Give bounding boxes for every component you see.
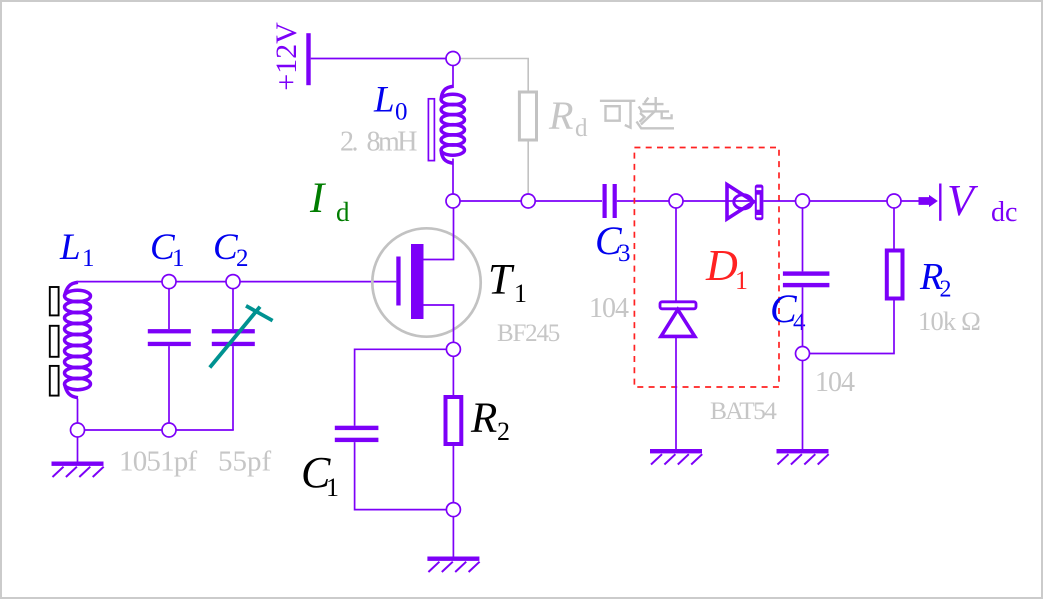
capacitor C4: [783, 271, 830, 275]
inductor L1 core bars: [50, 287, 59, 396]
resistor R2 (source): [446, 397, 462, 444]
svg-text:1: 1: [172, 245, 185, 272]
wire J13 to ground: [452, 517, 454, 557]
ground source: [427, 557, 479, 573]
wire C4 to node J7: [802, 287, 804, 346]
wire J4 to diode D1a: [683, 200, 756, 202]
svg-text:d: d: [336, 197, 350, 227]
dashed box around D1: [634, 148, 779, 388]
transistor T1 gate bar: [396, 257, 400, 306]
wire drain: [424, 208, 454, 260]
node J1: [446, 52, 460, 66]
svg-text:1: 1: [514, 279, 527, 308]
wire J5 to J6: [810, 200, 888, 202]
node J7: [796, 347, 810, 361]
power supply +12V bar: [306, 33, 310, 85]
svg-text:2: 2: [236, 245, 249, 272]
svg-text:D: D: [705, 241, 738, 290]
svg-text:10k Ω: 10k Ω: [918, 306, 980, 336]
svg-text:1: 1: [326, 473, 339, 502]
wire J10 to ground: [77, 437, 79, 462]
svg-text:2.: 2.: [340, 127, 358, 158]
C2 variable arrow: [210, 307, 260, 368]
svg-text:3: 3: [618, 240, 631, 267]
svg-text:55pf: 55pf: [218, 446, 272, 478]
resistor R2 (output load): [887, 251, 903, 299]
wire bypass C1 to J13: [355, 442, 447, 510]
wire gray J1 to Rd: [460, 59, 528, 93]
diode D1a (horizontal): [727, 185, 763, 221]
svg-text:dc: dc: [991, 197, 1017, 228]
node J8: [162, 275, 176, 289]
wire supply to node J1: [311, 58, 446, 60]
ground tank: [52, 462, 104, 478]
wire J5 down to C4: [802, 208, 804, 271]
resistor Rd: [519, 92, 536, 140]
svg-text:104: 104: [815, 367, 855, 398]
wire J9 to gate: [240, 281, 396, 283]
inductor L0 coil: [441, 86, 464, 163]
wire D1a to node J5: [763, 200, 795, 202]
wire J6 to arrow: [901, 200, 919, 202]
wire L1 bottom to node J10: [77, 399, 79, 424]
svg-text:0: 0: [395, 99, 408, 126]
wire J12 left to bypass C1: [355, 349, 447, 425]
wire J10 to J11: [85, 429, 163, 431]
svg-text:R: R: [548, 93, 573, 138]
ground below C4: [777, 449, 829, 465]
output terminal bar: [939, 184, 941, 221]
wire gray Rd to node J3: [527, 142, 529, 195]
svg-text:d: d: [575, 115, 588, 142]
capacitor C2 (variable): [232, 289, 234, 329]
node J6: [887, 194, 901, 208]
node J10: [71, 423, 85, 437]
ground below D1b: [650, 449, 702, 465]
svg-text:I: I: [309, 175, 326, 222]
node J9: [226, 275, 240, 289]
wire J3 to C3: [535, 200, 602, 202]
wire D1b to ground: [675, 336, 677, 449]
wire J12 down to R2: [452, 356, 454, 395]
wire L0 to node J2: [452, 159, 454, 195]
transistor T1 channel bar: [411, 244, 424, 319]
output arrow: [919, 195, 938, 207]
diode D1b (vertical, cathode up): [660, 302, 696, 337]
wire J7 to ground: [802, 361, 804, 450]
svg-text:L: L: [59, 227, 81, 268]
capacitor C1 (bypass): [335, 426, 379, 430]
svg-text:2: 2: [940, 277, 952, 303]
wire J8 to J9: [176, 281, 226, 283]
svg-text:4: 4: [793, 309, 806, 336]
svg-text:BF245: BF245: [497, 320, 560, 347]
svg-text:8mH: 8mH: [367, 127, 418, 158]
inductor L0 core bar: [428, 99, 434, 161]
capacitor C1 (tank): [168, 289, 170, 329]
inductor L1 coil: [65, 282, 91, 397]
svg-text:+12V: +12V: [270, 22, 303, 91]
capacitor C3: [603, 184, 607, 218]
wire L1 top to node J8: [78, 281, 162, 283]
svg-text:BAT54: BAT54: [710, 396, 777, 425]
node J5: [796, 194, 810, 208]
node J13: [446, 503, 460, 517]
svg-text:L: L: [373, 80, 395, 121]
node J12: [446, 342, 460, 356]
node J4: [669, 194, 683, 208]
svg-text:R: R: [470, 395, 497, 442]
wire J6 down to R2: [893, 208, 895, 249]
wire R2 to node J13: [452, 446, 454, 503]
node J2: [446, 194, 460, 208]
node J3: [521, 194, 535, 208]
svg-text:1051pf: 1051pf: [119, 446, 198, 478]
transistor T1 circle: [372, 228, 480, 336]
wire J11 to C2 bottom: [176, 429, 234, 431]
node J11: [162, 423, 176, 437]
wire J2 to J3: [460, 200, 521, 202]
wire R2 to J7: [810, 301, 895, 354]
svg-text:T: T: [488, 257, 515, 304]
svg-text:2: 2: [497, 417, 510, 446]
svg-text:1: 1: [735, 266, 748, 295]
wire C3 to node J4: [617, 200, 669, 202]
svg-text:104: 104: [589, 293, 629, 324]
label 可选 (optional): [600, 97, 674, 128]
wire J4 down to diode D1b: [675, 208, 677, 302]
svg-text:1: 1: [82, 245, 95, 272]
wire source: [424, 305, 454, 342]
wire J1 down to L0: [452, 66, 454, 89]
